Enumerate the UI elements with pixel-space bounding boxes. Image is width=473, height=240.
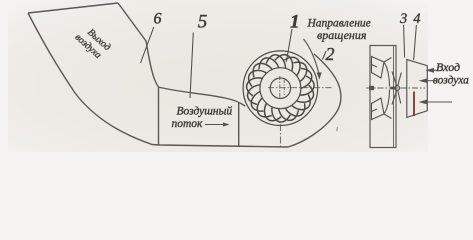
svg-text:2: 2 xyxy=(326,44,335,64)
svg-text:1: 1 xyxy=(290,12,300,33)
svg-text:5: 5 xyxy=(198,12,208,33)
svg-text:поток: поток xyxy=(172,118,204,130)
svg-text:вращения: вращения xyxy=(317,28,367,42)
svg-text:Воздушный: Воздушный xyxy=(177,105,233,118)
svg-text:Вход: Вход xyxy=(436,60,460,74)
svg-text:6: 6 xyxy=(154,11,162,28)
svg-text:3: 3 xyxy=(399,11,407,27)
svg-text:воздуха: воздуха xyxy=(433,75,469,87)
svg-text:4: 4 xyxy=(413,11,420,27)
